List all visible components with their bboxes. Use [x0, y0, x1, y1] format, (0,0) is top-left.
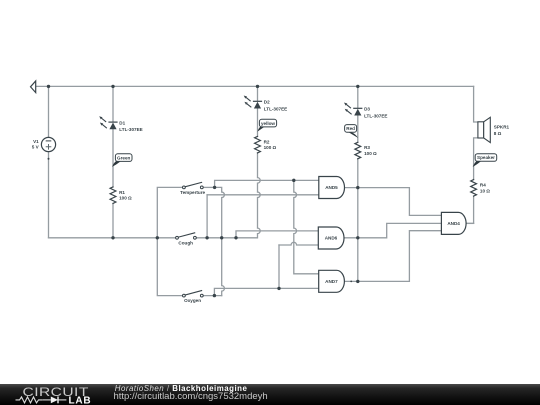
wire Oxygen right to corner	[203, 295, 222, 297]
wire speaker bottom to R4 top	[474, 138, 478, 180]
node AND7 output / R3 column	[356, 280, 359, 283]
svg-text:AND5: AND5	[325, 185, 338, 190]
svg-text:10 Ω: 10 Ω	[480, 188, 490, 193]
switch Oxygen	[183, 291, 204, 297]
wire D2 column top	[257, 86, 259, 100]
footer credit text	[115, 385, 248, 393]
wire Cough junction up to AND6 top input	[236, 231, 318, 238]
wire D1 column top	[112, 86, 114, 121]
node top bus / V1	[47, 85, 50, 88]
node AND5 output / R3 column	[356, 186, 359, 189]
node top bus / D1	[111, 85, 114, 88]
node bottom bus / x221.7	[220, 236, 223, 239]
svg-text:Red: Red	[346, 126, 355, 131]
wire Temperture right to junction	[203, 186, 214, 188]
svg-text:D1: D1	[119, 121, 125, 126]
wire AND5 top input junction down to AND7 top input	[294, 180, 319, 273]
wire D3 to R3	[357, 115, 359, 142]
node AND5 top input branch	[292, 179, 295, 182]
wire Temperture junction right and down rail x=221.7	[215, 187, 225, 295]
wire D2 to R2	[257, 108, 259, 136]
wire V1 bottom lead to bottom bus	[48, 152, 50, 238]
svg-text:5 V: 5 V	[32, 145, 40, 150]
switch Temperture	[183, 182, 204, 188]
wire top bus	[36, 85, 474, 87]
label bubble Green	[112, 154, 132, 167]
wire vertical x=279 down to Oxygen wire	[278, 245, 280, 288]
node top bus / D2	[256, 85, 259, 88]
node AND6 output / R3 column	[356, 236, 359, 239]
wire bottom bus	[49, 237, 176, 239]
resistor R3	[355, 142, 361, 159]
svg-text:Cough: Cough	[178, 240, 193, 245]
wire Temperture junction up to AND5 top input	[215, 180, 319, 187]
speaker SPKR1	[478, 117, 490, 142]
LED D2	[244, 96, 262, 109]
node bottom bus / left rail	[156, 236, 159, 239]
resistor R1	[110, 187, 116, 204]
wire R2 bottom down with hops to bus corner then to Cough right	[196, 153, 260, 238]
footer bar	[0, 384, 540, 405]
svg-text:SPKR1: SPKR1	[494, 125, 510, 130]
svg-text:100 Ω: 100 Ω	[364, 151, 377, 156]
svg-text:D3: D3	[364, 107, 370, 112]
node Temperture junction	[213, 186, 216, 189]
node dot below V1	[48, 158, 50, 160]
svg-text:AND4: AND4	[447, 221, 460, 226]
svg-text:AND7: AND7	[325, 279, 338, 284]
wire AND7 output to AND4 bottom input	[345, 231, 442, 282]
svg-text:LTL-307EE: LTL-307EE	[364, 113, 387, 118]
CircuitLab logo	[0, 384, 110, 405]
label bubble Red	[345, 125, 359, 138]
wire vertical x=207.1 down to bus	[206, 195, 208, 238]
node AND6 vertical / Oxygen wire	[277, 287, 280, 290]
wire D1 to R1	[112, 130, 114, 187]
node bottom bus / x207	[205, 236, 208, 239]
svg-text:100 Ω: 100 Ω	[264, 145, 277, 150]
svg-text:R3: R3	[364, 145, 370, 150]
svg-text:LTL-307EE: LTL-307EE	[119, 127, 142, 132]
node bottom bus / Cough branch	[234, 236, 237, 239]
resistor R2	[255, 136, 261, 153]
label bubble Speaker	[473, 154, 497, 167]
wire AND5 bottom input horizontal	[207, 194, 319, 196]
LED D3	[344, 103, 362, 116]
svg-text:LTL-307EE: LTL-307EE	[264, 106, 287, 111]
resistor R4	[471, 180, 477, 197]
AND gate AND7	[319, 270, 345, 292]
wire R1 bottom to bus	[112, 204, 114, 238]
svg-text:Speaker: Speaker	[477, 155, 495, 160]
label bubble yellow	[257, 119, 276, 131]
wire AND6 bottom input with hop	[279, 242, 318, 245]
wire V1 top lead	[48, 86, 50, 137]
node top bus / D3	[356, 85, 359, 88]
node bottom bus / R1	[111, 236, 114, 239]
AND gate AND6	[318, 227, 344, 249]
svg-text:LAB: LAB	[69, 396, 92, 405]
wire R4 bottom to AND4 output	[467, 196, 474, 223]
wire Oxygen junction up to AND7 bottom input	[214, 288, 318, 295]
svg-text:R2: R2	[264, 139, 270, 144]
LED D1	[99, 116, 117, 129]
wire left rail Temperture to Oxygen	[157, 187, 182, 295]
svg-text:V1: V1	[33, 139, 39, 144]
svg-text:100 Ω: 100 Ω	[119, 196, 132, 201]
svg-text:Oxygen: Oxygen	[184, 298, 201, 303]
svg-text:yellow: yellow	[261, 121, 275, 126]
wire D3 column top	[357, 86, 359, 107]
net flag arrow	[31, 81, 36, 93]
op-amp style AND gate AND5	[319, 177, 345, 199]
svg-text:R4: R4	[480, 183, 486, 188]
AND gate AND4	[441, 212, 466, 234]
voltage source V1	[41, 137, 55, 151]
svg-text:8 Ω: 8 Ω	[494, 131, 502, 136]
svg-text:Green: Green	[117, 155, 130, 160]
node Oxygen junction	[213, 294, 216, 297]
wire R3 bottom down to AND7 output junction	[357, 159, 359, 282]
svg-text:D2: D2	[264, 100, 270, 105]
wire AND6 output to AND4 middle input	[344, 223, 441, 237]
wire right column to speaker top	[474, 86, 478, 122]
svg-text:Temperture: Temperture	[180, 190, 205, 195]
node small dot on AND7 output	[350, 281, 352, 283]
svg-text:R1: R1	[119, 190, 125, 195]
wire AND5 output to AND4 top input	[345, 188, 442, 216]
wire AND4 output	[467, 222, 474, 224]
svg-text:AND6: AND6	[325, 236, 338, 241]
switch Cough	[176, 233, 197, 239]
